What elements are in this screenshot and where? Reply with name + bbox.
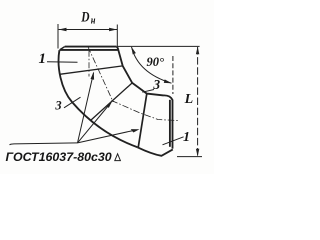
axis dash-dot centerline of bend — [88, 51, 90, 77]
svg-text:ГОСТ16037-80с30: ГОСТ16037-80с30 — [6, 150, 112, 164]
arrowhead right of Dn — [109, 28, 117, 32]
angle arc 90 — [132, 47, 172, 83]
wire: top horizontal extension line (angle/L datum) — [118, 45, 200, 47]
right face: outer (face) line — [164, 95, 173, 148]
weld symbol triangle — [115, 154, 121, 161]
wire: bottom extension line for L — [177, 156, 202, 158]
arrowhead up of L — [196, 46, 199, 54]
weld leader C to joint 3 — [78, 131, 133, 143]
arrowhead arc bottom — [164, 79, 172, 83]
svg-text:н: н — [91, 16, 96, 27]
arrowhead down of L — [196, 149, 199, 157]
wire: L dimension line — [197, 47, 199, 156]
svg-text:1: 1 — [39, 51, 47, 67]
wire: left extension line of Dn dimension — [57, 24, 59, 49]
outer contour arc (extrados) — [59, 50, 138, 147]
weld designation leader shelf — [10, 143, 78, 145]
weld leader A to joint 1 — [78, 73, 94, 143]
wire: dashed vertical extension above right face — [172, 56, 174, 94]
pipe top face: outer (top) line — [65, 46, 117, 48]
leader of label 3 left — [64, 97, 81, 108]
axis of segment 3 and end segment (dash-dot) — [112, 101, 179, 121]
weld leader B to joint 2 — [78, 103, 112, 143]
svg-text:D: D — [80, 8, 90, 25]
svg-text:L: L — [184, 92, 194, 107]
bottom edge of end segment and bevel to right face — [138, 147, 173, 156]
weld joint line J1 — [60, 66, 123, 74]
svg-text:90°: 90° — [147, 55, 165, 69]
bevel flare top-left corner — [60, 47, 65, 50]
weld joint line J3 — [138, 94, 147, 147]
pipe top face: root (lower) line — [60, 49, 118, 51]
svg-text:3: 3 — [54, 99, 61, 113]
leader of label 3 right — [142, 90, 154, 93]
wire: Dn dimension line — [59, 29, 117, 31]
leader of label 1 top-left — [47, 61, 78, 64]
weld joint line J2 — [91, 83, 133, 121]
right face: root line — [169, 100, 171, 147]
wire: right extension line of Dn dimension — [116, 25, 118, 47]
svg-text:1: 1 — [183, 130, 190, 145]
inner contour polyline (intrados) — [116, 47, 163, 96]
arrowhead left of Dn — [59, 28, 67, 32]
axis of segment 2 (dash-dot) — [88, 47, 113, 103]
arrowhead arc top — [131, 47, 136, 55]
leader of label 1 right — [163, 137, 184, 145]
